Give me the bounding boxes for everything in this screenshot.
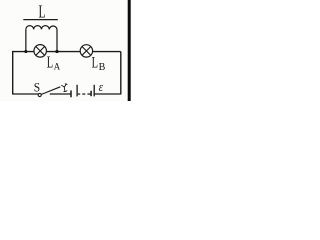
wire middle horizontal left segment xyxy=(13,51,34,53)
wire inductor branch left vertical xyxy=(25,29,27,51)
battery omission dash 1 xyxy=(78,93,80,95)
battery short plate 1 xyxy=(70,90,72,97)
wire middle horizontal right segment xyxy=(93,51,121,53)
switch S blade xyxy=(41,87,60,95)
background xyxy=(0,0,132,101)
battery long plate 1 xyxy=(76,85,78,97)
battery omission dash 3 xyxy=(87,93,91,95)
inductor L coil xyxy=(26,26,57,30)
svg-text:L: L xyxy=(92,53,98,72)
wire middle horizontal between lamps xyxy=(47,51,80,53)
page border bar (right edge) xyxy=(128,0,131,101)
wire bottom left segment xyxy=(12,93,38,95)
label Y (above wire) xyxy=(62,84,68,92)
svg-text:A: A xyxy=(54,62,61,73)
wire inductor branch right vertical xyxy=(56,29,58,51)
switch S pivot xyxy=(38,93,41,96)
wire left vertical xyxy=(12,51,14,94)
battery long plate 2 xyxy=(93,85,95,97)
battery short plate 2 xyxy=(90,91,92,96)
battery omission dash 2 xyxy=(82,93,85,95)
wire bottom right segment (battery to corner) xyxy=(94,93,121,95)
wire bottom middle segment (switch to battery) xyxy=(50,93,71,95)
svg-text:S: S xyxy=(34,80,40,94)
label LB xyxy=(92,53,106,73)
lamp LB xyxy=(80,45,92,57)
lamp LA xyxy=(34,45,47,58)
label LA xyxy=(47,53,60,73)
wire right vertical xyxy=(120,52,122,95)
svg-text:L: L xyxy=(47,53,53,72)
junction node left xyxy=(24,50,27,53)
inductor core line xyxy=(23,19,58,21)
svg-text:B: B xyxy=(99,62,106,73)
svg-text:L: L xyxy=(39,2,46,22)
junction node right xyxy=(55,50,58,53)
svg-text:ε: ε xyxy=(99,80,103,94)
